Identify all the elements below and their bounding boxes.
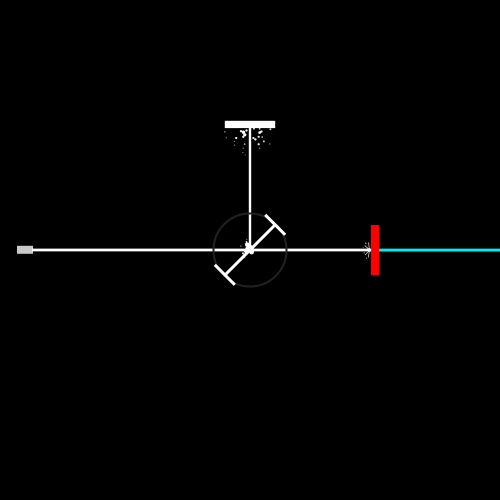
beam splitter BS plate (45 deg)	[225, 225, 275, 275]
scatter blob at beam splitter centre node	[238, 239, 254, 258]
beam splitter BS lower-left end cap	[215, 265, 235, 285]
laser source LS (gray box, left)	[17, 246, 33, 254]
mirror M2 (right, red bar)	[371, 225, 379, 275]
wire: cyan output beam from mirror M2 to right edge	[379, 249, 500, 252]
mirror M1 (top, white bar)	[225, 121, 275, 128]
wire: horizontal white beam from source to red mirror M2	[32, 249, 371, 252]
node: beam splitter boundary circle	[214, 214, 287, 287]
wire: vertical white beam from beam splitter to top mirror M1	[249, 128, 251, 251]
scatter starburst at mirror M2 face	[364, 242, 370, 257]
beam splitter BS upper-right end cap	[265, 215, 285, 235]
scatter speckles below mirror M1	[224, 128, 271, 156]
